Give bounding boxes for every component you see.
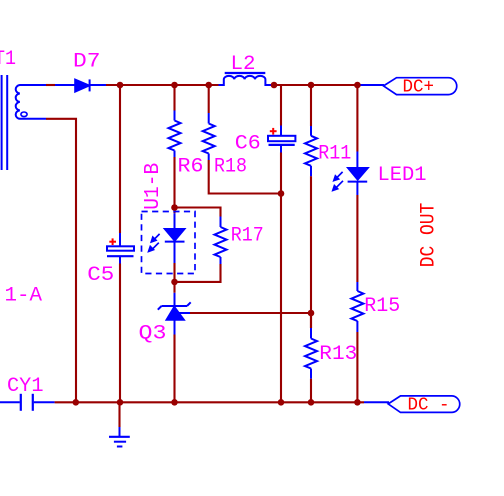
resistor R17 (215, 217, 227, 265)
optocoupler U1-B dashed box (142, 212, 196, 274)
wire R18 bottom to C6 column (209, 160, 281, 194)
C5 plus sign (109, 238, 116, 245)
transformer T1 secondary winding (16, 85, 46, 119)
port DC+ (384, 78, 457, 95)
wire Q3 ref tap to R13 node (190, 312, 311, 314)
svg-text:R17: R17 (231, 225, 264, 248)
wire R17 top link (175, 208, 221, 217)
svg-text:R18: R18 (214, 156, 247, 179)
wire R18 top lead (208, 85, 210, 113)
port DC- (388, 396, 460, 413)
wire Q3 cathode lower (173, 335, 175, 403)
svg-text:DC -: DC - (408, 396, 450, 416)
ground stub wire (118, 402, 120, 427)
U1-B emission arrows (149, 234, 160, 252)
capacitor C6 (268, 126, 295, 153)
wire R17 bottom link (175, 264, 221, 282)
wire lead to DC+ port (360, 84, 384, 86)
inductor L2 (219, 73, 273, 85)
capacitor CY1 (0, 394, 55, 411)
wire lead to DC- port (364, 401, 389, 403)
shunt regulator Q3 (158, 293, 191, 335)
wire R11 top lead (310, 85, 312, 126)
wire LED1 to R15 (356, 195, 358, 282)
svg-text:C6: C6 (235, 132, 261, 155)
svg-text:DC OUT: DC OUT (418, 203, 441, 268)
svg-text:D7: D7 (73, 51, 101, 74)
wire R6 top lead (173, 85, 175, 111)
transformer T1 core (2, 75, 8, 170)
svg-text:R13: R13 (319, 343, 357, 366)
ground (109, 427, 130, 447)
wire T1 top to D7 (46, 84, 55, 86)
wire C6 top lead (280, 85, 282, 126)
C6 plus sign (270, 128, 277, 135)
svg-text:R15: R15 (364, 295, 400, 318)
wire R13 bottom (310, 379, 312, 403)
U1-B LED (165, 213, 185, 263)
wire C5 column lower (119, 264, 121, 403)
resistor R15 (351, 282, 363, 332)
svg-text:R11: R11 (318, 143, 351, 166)
svg-text:L2: L2 (231, 53, 256, 76)
svg-text:1-A: 1-A (5, 285, 43, 308)
wire C5 column upper (119, 85, 121, 233)
svg-text:U1-B: U1-B (141, 163, 165, 210)
wire C6 column lower (280, 153, 282, 403)
LED LED1 (348, 152, 368, 196)
wire top rail D7 to L2 (106, 84, 219, 86)
wire R6 bottom to U1-B (173, 157, 175, 213)
svg-text:DC+: DC+ (403, 78, 435, 98)
resistor R11 (305, 126, 317, 176)
svg-text:CY1: CY1 (7, 375, 44, 398)
svg-text:Q3: Q3 (139, 323, 167, 346)
svg-text:R6: R6 (178, 156, 204, 179)
wire R15 bottom (356, 332, 358, 402)
wire node to R13 (310, 313, 312, 328)
wire R11 bottom to node (310, 176, 312, 328)
LED1 emission arrows (333, 172, 343, 191)
svg-text:LED1: LED1 (378, 164, 427, 187)
capacitor C5 (107, 233, 134, 264)
diode D7 (55, 79, 106, 91)
svg-text:T1: T1 (0, 48, 16, 71)
wire top rail L2 to DC+ (272, 84, 360, 86)
resistor R13 (305, 328, 317, 379)
resistor R18 (203, 113, 215, 160)
wire bottom rail (55, 401, 364, 403)
resistor R6 (169, 111, 181, 158)
wire LED1 top lead (356, 85, 358, 152)
svg-text:C5: C5 (87, 264, 114, 287)
wire T1 bottom to left rail corner (46, 119, 76, 403)
wire U1-B cathode to node (173, 263, 175, 293)
